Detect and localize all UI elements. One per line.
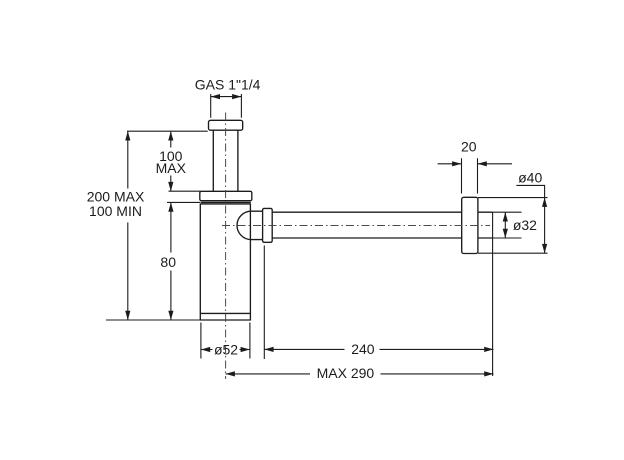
dim GAS line <box>211 96 242 98</box>
arrow o52 left <box>201 347 210 352</box>
arrow o32 up <box>503 212 508 221</box>
svg-text:MAX: MAX <box>156 160 187 176</box>
svg-text:80: 80 <box>160 254 176 270</box>
arrow 20 right <box>478 161 487 166</box>
dim 240 left extension <box>263 246 265 360</box>
dim o32 extension lines <box>493 212 522 238</box>
ext line flange top <box>169 190 201 192</box>
svg-text:240: 240 <box>351 341 375 357</box>
ext line top (nut underside) <box>127 130 208 132</box>
svg-text:200 MAX: 200 MAX <box>87 189 145 205</box>
ext line body bottom <box>106 319 200 321</box>
dim 20 extension lines <box>462 158 478 193</box>
arrow GAS right <box>232 94 241 99</box>
trap body bottom seam <box>200 312 250 314</box>
dim 200MAX/100MIN line <box>127 131 129 320</box>
arrow 80 up <box>168 202 173 211</box>
svg-text:GAS 1"1/4: GAS 1"1/4 <box>195 77 261 93</box>
svg-text:MAX 290: MAX 290 <box>317 365 375 381</box>
arrow 240 left <box>264 347 273 352</box>
dim o40 shelf <box>516 184 545 186</box>
pipe end and right extension line <box>492 212 494 376</box>
dim 80 line <box>170 202 172 320</box>
dim o52 line <box>201 349 250 351</box>
outlet collar ring <box>263 208 273 242</box>
body flange lip <box>201 201 251 203</box>
arrow GAS left <box>211 94 220 99</box>
dim 240 line <box>264 348 493 350</box>
svg-text:ø32: ø32 <box>513 217 537 233</box>
arrow 100MAX up <box>168 131 173 140</box>
arrow o32 down <box>503 229 508 238</box>
wall pipe tail <box>478 212 493 238</box>
arrow 200 up <box>125 131 130 140</box>
dim MAX290 line <box>226 373 494 375</box>
tailpipe inlet tube <box>213 130 238 191</box>
arrow 20 left <box>452 161 461 166</box>
svg-text:20: 20 <box>461 138 477 154</box>
arrow MAX290 left <box>226 371 235 376</box>
horizontal outlet pipe <box>272 212 462 238</box>
arrow 240 right <box>484 347 493 352</box>
vertical centerline <box>225 113 227 380</box>
arrow MAX290 right <box>484 371 493 376</box>
svg-text:ø40: ø40 <box>518 169 542 185</box>
outlet elbow dome <box>237 211 263 239</box>
wall rosette flange <box>462 197 478 253</box>
dim o40 extension lines <box>478 198 548 254</box>
arrow 80 down <box>168 311 173 320</box>
coupling nut (top) <box>209 120 243 130</box>
dim o32 line <box>504 212 506 238</box>
horizontal centerline <box>222 225 490 227</box>
dim 100MAX line <box>170 131 172 191</box>
dim GAS extension lines <box>211 94 242 118</box>
arrow o52 right <box>241 347 250 352</box>
arrow o40 down <box>542 244 547 253</box>
dim 20 line <box>438 163 512 165</box>
dim o40 line <box>544 185 546 253</box>
arrow o40 up <box>542 198 547 207</box>
arrow 100MAX down <box>168 182 173 191</box>
trap body cup <box>200 204 250 320</box>
ext line flange bottom <box>167 201 200 203</box>
svg-text:100 MIN: 100 MIN <box>89 203 142 219</box>
body flange nut <box>200 191 252 200</box>
dim o52 extension lines <box>201 323 250 359</box>
svg-text:ø52: ø52 <box>214 342 238 358</box>
arrow 200 down <box>125 311 130 320</box>
